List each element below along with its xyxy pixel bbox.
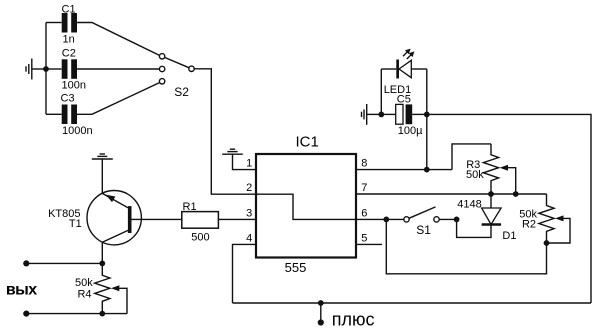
LED LED1 bbox=[396, 60, 411, 79]
ground (near C5) bbox=[362, 104, 367, 125]
switch S1 bbox=[404, 207, 439, 222]
node: pin6 junction bbox=[383, 217, 389, 223]
ground (IC1 pin1) bbox=[222, 149, 243, 154]
capacitor C1 bbox=[62, 13, 77, 33]
wire: ground to C5 bbox=[367, 113, 382, 115]
svg-text:1n: 1n bbox=[63, 34, 75, 46]
node: R4 bottom junction bbox=[99, 311, 105, 317]
wire: R1 to IC1 pin3 bbox=[218, 218, 255, 220]
wire: T1 base to R1 bbox=[132, 218, 182, 220]
svg-text:5: 5 bbox=[361, 232, 367, 244]
svg-text:100µ: 100µ bbox=[398, 125, 423, 137]
wire: plus stub bbox=[320, 303, 322, 322]
wire: left capacitor bus bbox=[45, 23, 47, 115]
wire: pin1 to ground bbox=[233, 154, 256, 169]
potentiometer R3 bbox=[483, 144, 498, 194]
wire: bus to C3 bbox=[46, 113, 62, 115]
wire: bottom output wire bbox=[26, 313, 127, 315]
node: R3 wiper junction bbox=[513, 191, 519, 197]
wire: emitter to output (left) bbox=[26, 262, 102, 264]
R4 wiper arrow bbox=[111, 285, 127, 313]
transistor T1 bbox=[87, 191, 141, 245]
potentiometer R2 bbox=[539, 194, 554, 243]
svg-text:6: 6 bbox=[361, 207, 367, 219]
svg-text:3: 3 bbox=[246, 207, 252, 219]
ground (far left, capacitor bank) bbox=[26, 59, 32, 80]
switch S2 bbox=[159, 54, 194, 84]
svg-text:T1: T1 bbox=[69, 218, 82, 230]
node: S1/D1 junction bbox=[454, 217, 460, 223]
node: LED/C5 left junction bbox=[378, 112, 384, 118]
node: C5 right junction bbox=[424, 112, 430, 118]
svg-text:R1: R1 bbox=[183, 201, 197, 213]
svg-text:4: 4 bbox=[246, 232, 252, 244]
wire: C5 to right vertical bbox=[412, 113, 427, 115]
svg-text:IC1: IC1 bbox=[296, 134, 319, 151]
svg-text:S2: S2 bbox=[174, 85, 189, 99]
wire: LED block left vertical bbox=[380, 69, 382, 114]
svg-text:R4: R4 bbox=[77, 289, 91, 301]
R3 wiper arrow bbox=[500, 165, 516, 194]
capacitor C2 bbox=[62, 59, 77, 79]
wire: S2 common to IC1 pin2 bbox=[194, 69, 256, 194]
wire: LED row left bbox=[381, 68, 396, 70]
svg-text:плюс: плюс bbox=[332, 309, 375, 329]
svg-text:4148: 4148 bbox=[457, 198, 481, 210]
svg-text:S1: S1 bbox=[416, 223, 431, 237]
svg-text:D1: D1 bbox=[502, 230, 516, 242]
wire: C1 to S2 top contact bbox=[77, 23, 160, 56]
node: pin8/LED junction bbox=[424, 167, 430, 173]
node: R3 bottom junction bbox=[488, 191, 494, 197]
LED1 light arrows bbox=[403, 49, 414, 59]
node: output terminal upper bbox=[23, 260, 29, 266]
svg-text:100n: 100n bbox=[62, 80, 86, 92]
svg-text:1: 1 bbox=[246, 158, 252, 170]
svg-text:вых: вых bbox=[6, 281, 37, 298]
node: output terminal lower bbox=[23, 311, 29, 317]
node: R2 bottom junction bbox=[544, 240, 550, 246]
node: plus junction bbox=[318, 300, 324, 306]
wire: C5 row to right edge and down to rail bbox=[427, 114, 591, 303]
ground (above transistor T1) bbox=[92, 154, 113, 159]
wire: bus to C1 bbox=[46, 22, 62, 24]
wire: pin6 to S1 bbox=[356, 218, 404, 220]
svg-text:1000n: 1000n bbox=[62, 125, 93, 137]
svg-text:50k: 50k bbox=[466, 169, 484, 181]
wire: bus to C2 bbox=[46, 68, 62, 70]
svg-text:2: 2 bbox=[246, 182, 252, 194]
wire: ground to capacitor bus bbox=[32, 68, 46, 70]
wire: LED row right bbox=[411, 68, 427, 70]
svg-text:C3: C3 bbox=[61, 92, 75, 104]
wire: C5 row left bbox=[381, 113, 395, 115]
wire: pin8 row bbox=[356, 169, 452, 171]
wire: pin7 row bbox=[356, 193, 547, 195]
node: emitter junction bbox=[99, 261, 105, 267]
wire: C2 to S2 middle contact bbox=[77, 68, 159, 70]
svg-text:8: 8 bbox=[361, 158, 367, 170]
potentiometer R4 bbox=[95, 263, 110, 313]
svg-text:500: 500 bbox=[191, 231, 209, 243]
svg-text:C2: C2 bbox=[62, 48, 76, 60]
svg-text:7: 7 bbox=[361, 182, 367, 194]
node: plus terminal bbox=[318, 319, 324, 325]
svg-text:R2: R2 bbox=[522, 218, 536, 230]
node: capacitor bus junction bbox=[43, 66, 49, 72]
wire: R2 bottom loop to pin6 net bbox=[386, 219, 546, 273]
svg-text:50k: 50k bbox=[75, 277, 93, 289]
capacitor C3 bbox=[62, 105, 77, 125]
wire: pin5 stub bbox=[356, 243, 382, 245]
wire: S1 to D1 cathode loop bbox=[439, 219, 491, 237]
wire: internal pin2-pin6 link bbox=[256, 194, 356, 219]
capacitor C5 (polarized) bbox=[396, 104, 413, 124]
wire: C3 to S2 bottom contact bbox=[77, 83, 160, 115]
wire: LED block right vertical bbox=[426, 69, 428, 170]
wire: bottom supply rail bbox=[233, 302, 592, 304]
diode D1 bbox=[482, 194, 502, 225]
wire: ground to T1 collector bbox=[101, 159, 103, 193]
wire: T1 emitter down bbox=[101, 242, 103, 263]
wire: pin8 up to R3 top bbox=[452, 144, 491, 170]
wire: pin4 to bottom rail bbox=[233, 244, 256, 303]
op IC1 (555 timer) bbox=[256, 154, 356, 258]
svg-text:555: 555 bbox=[285, 260, 307, 275]
resistor R1 bbox=[182, 212, 219, 229]
R2 wiper arrow bbox=[547, 215, 571, 243]
svg-text:C5: C5 bbox=[397, 94, 411, 106]
svg-text:C1: C1 bbox=[62, 4, 76, 16]
